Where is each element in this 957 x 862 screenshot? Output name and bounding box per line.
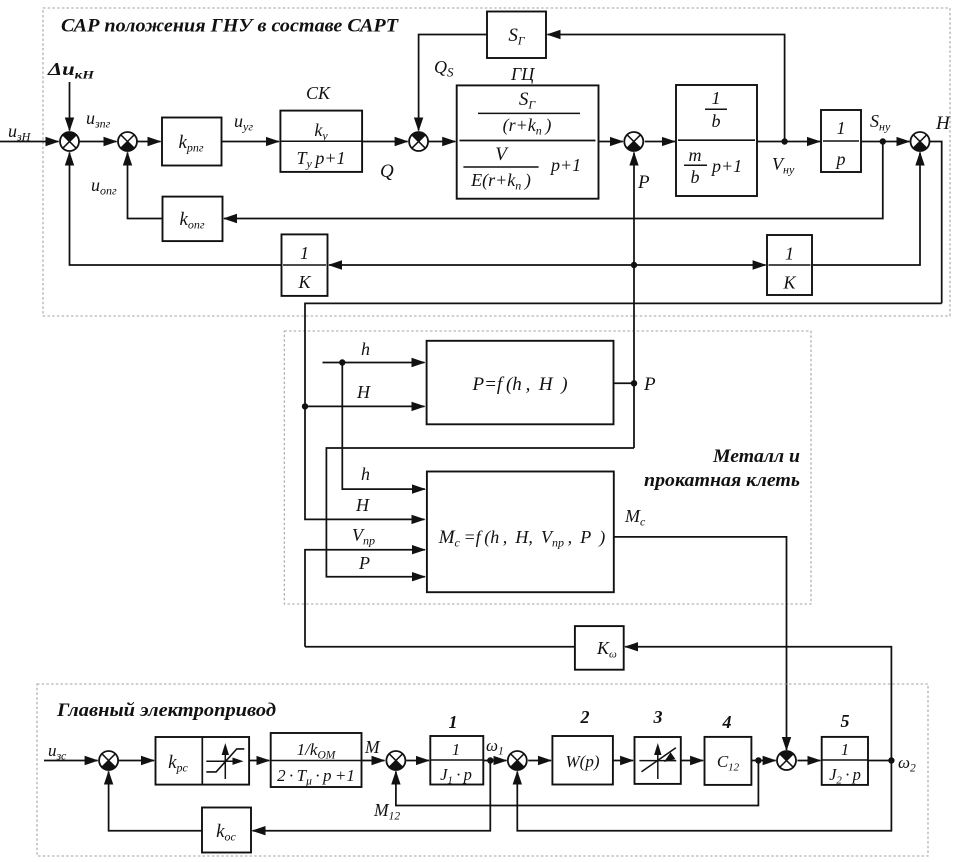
- block P=f(h,H): [427, 341, 614, 425]
- svg-text:K: K: [297, 272, 311, 292]
- summing junction JP: [624, 132, 643, 151]
- svg-text:H: H: [935, 113, 951, 134]
- svg-text:Q: Q: [380, 161, 394, 182]
- wire: P node to 1/K left input: [329, 264, 634, 266]
- wire: omega2 feedback down to BJ3: [517, 761, 891, 831]
- svg-text:2 · Tμ · p +1: 2 · Tμ · p +1: [277, 766, 355, 788]
- svg-text:1: 1: [452, 740, 460, 759]
- svg-text:4: 4: [722, 712, 732, 732]
- node P tap at y265: [631, 262, 637, 268]
- svg-text:P: P: [358, 553, 370, 573]
- wire: 1/kOM to BJ2: [362, 760, 385, 762]
- block 1/kOM over 2Tmu p+1: [271, 733, 362, 787]
- svg-text:b: b: [712, 111, 721, 131]
- node h branch: [339, 359, 345, 365]
- wire: V_nu node up to S_G input: [548, 35, 785, 142]
- svg-text:Металл и: Металл и: [712, 447, 800, 467]
- node after C12: [755, 757, 761, 763]
- wire: u_zs input: [44, 760, 98, 762]
- summing junction BJ3: [508, 751, 527, 770]
- block 1/K left: [282, 234, 328, 296]
- wire: BJ2 to block 1: [406, 760, 429, 762]
- svg-text:1: 1: [300, 243, 309, 263]
- wire: k_opg output to J2: [128, 153, 163, 219]
- svg-text:Главный электропривод: Главный электропривод: [56, 701, 276, 721]
- block 4: C12: [705, 737, 752, 785]
- wire: h branch down into Mc block: [342, 363, 425, 490]
- wire: P feedback from node down into Mc block: [326, 448, 634, 577]
- svg-text:1: 1: [785, 244, 794, 264]
- block 1/b m/b p+1: [676, 85, 757, 196]
- wire: W(p) to block 3: [613, 760, 633, 762]
- wire: P node to 1/K right input: [634, 264, 766, 266]
- wire: V_pr into Mc block: [305, 550, 425, 647]
- wire: M12 feedback from C12 node to BJ2: [396, 761, 759, 806]
- node H branch: [302, 403, 308, 409]
- svg-text:E(r+kп ): E(r+kп ): [470, 170, 531, 193]
- block k_opg: [163, 197, 223, 242]
- wire: omega1 node down to k_os: [253, 761, 491, 831]
- wire: S_G output down to JQ: [419, 35, 487, 131]
- svg-text:прокатная клеть: прокатная клеть: [644, 471, 800, 491]
- svg-text:J1 · p: J1 · p: [440, 765, 472, 787]
- wire: H net from top right down into middle section: [305, 303, 942, 519]
- wire: P vertical main (JP down to corner): [633, 153, 635, 449]
- svg-text:2: 2: [580, 707, 590, 727]
- summing junction JQ: [409, 132, 428, 151]
- summing junction JH: [911, 132, 930, 151]
- wire: block 3 to C12: [681, 760, 703, 762]
- wire: J1 to J2: [79, 141, 117, 143]
- svg-text:J2 · p: J2 · p: [829, 765, 861, 787]
- wire: J2 to k_rpg: [137, 141, 161, 143]
- svg-text:Tу p+1: Tу p+1: [296, 148, 345, 171]
- node omega1: [487, 757, 493, 763]
- wire: P=f output to vertical P net: [614, 382, 635, 384]
- svg-text:P=f (h , H ): P=f (h , H ): [471, 374, 567, 395]
- svg-text:H: H: [355, 495, 370, 515]
- svg-text:h: h: [361, 464, 370, 484]
- svg-text:1: 1: [712, 88, 721, 108]
- block GTs: hydrocylinder transfer function: [457, 85, 599, 198]
- svg-text:P: P: [637, 172, 650, 193]
- wire: C12 to BJ5 with node: [751, 760, 775, 762]
- svg-text:h: h: [361, 339, 370, 359]
- wire: K_omega output left to V_pr corner: [305, 646, 575, 648]
- wire: S_nu node down and left to k_opg: [224, 142, 883, 219]
- wire: 1/K right output to JH bottom: [812, 153, 920, 266]
- svg-text:3: 3: [653, 707, 663, 727]
- wire: BJ3 to W(p): [528, 760, 551, 762]
- wire: u_zN input: [0, 141, 59, 143]
- node omega2: [888, 757, 894, 763]
- dashed frame: Glavny elektroprivod box: [37, 684, 928, 856]
- block 3: variable limiter: [635, 737, 681, 784]
- wire: BJ5 to block 5: [797, 760, 820, 762]
- wire: du_kN vertical into J1: [69, 82, 71, 131]
- wire: k_rpg to SK block: [222, 141, 279, 143]
- wire: block 5 output to omega2 node: [868, 760, 891, 762]
- svg-text:СК: СК: [306, 83, 331, 103]
- block 2: W(p): [552, 736, 613, 785]
- svg-text:W(p): W(p): [566, 752, 600, 771]
- block S_G feedback: [487, 12, 546, 59]
- block 1/p: [821, 110, 861, 172]
- limiter icon: [224, 753, 226, 779]
- node S_nu: [880, 138, 886, 144]
- svg-text:H: H: [356, 382, 371, 402]
- block k_rpg: [162, 118, 222, 166]
- block 5: 1/(J2 p): [822, 737, 868, 785]
- svg-text:Mс =f (h , H, Vпр , P ): Mс =f (h , H, Vпр , P ): [438, 527, 606, 550]
- wire: JH output right and down: [930, 142, 942, 304]
- wire: GTs to JP: [599, 141, 623, 143]
- wire: 1/b to 1/p with V_nu node: [757, 141, 820, 143]
- wire: k_os output to BJ1: [109, 772, 202, 831]
- svg-text:1: 1: [841, 740, 849, 759]
- svg-text:1: 1: [449, 712, 458, 732]
- svg-text:1: 1: [837, 118, 846, 138]
- summing junction BJ5: [777, 751, 796, 770]
- wire: BJ1 to k_rs: [118, 760, 154, 762]
- svg-text:САР положения ГНУ в составе СА: САР положения ГНУ в составе САРТ: [61, 16, 399, 37]
- svg-text:K: K: [782, 273, 796, 293]
- svg-text:b: b: [691, 167, 700, 187]
- block k_os: [202, 808, 251, 853]
- wire: omega2 up and into K_omega: [625, 647, 891, 761]
- svg-text:(r+kп ): (r+kп ): [503, 115, 552, 138]
- wire: SK to JQ: [362, 141, 408, 143]
- svg-text:p: p: [835, 149, 846, 169]
- summing junction J2: [118, 132, 137, 151]
- wire: 1/p to JH with S_nu node: [861, 141, 909, 143]
- block 1: 1/(J1 p): [430, 736, 483, 785]
- wire: Mc output right and down to BJ5: [614, 537, 787, 750]
- block k_rs with limiter: [156, 737, 250, 785]
- arrow into JP from below: [633, 153, 635, 200]
- wire: JQ to GTs block: [428, 141, 455, 143]
- svg-text:ГЦ: ГЦ: [510, 64, 535, 84]
- svg-text:m: m: [689, 145, 702, 165]
- summing junction J1: [60, 132, 79, 151]
- wire: h into P=f block: [323, 362, 425, 364]
- svg-text:5: 5: [841, 711, 850, 731]
- wire: 1/K left output to J1 bottom: [70, 153, 282, 266]
- summing junction BJ1: [99, 751, 118, 770]
- wire: k_rs to 1/kOM block: [249, 760, 269, 762]
- node V_nu: [781, 138, 787, 144]
- block SK: k_u/(T_u p+1): [280, 111, 362, 172]
- svg-text:p+1: p+1: [710, 156, 742, 176]
- dashed frame: SAR polozheniya GNU box: [43, 8, 950, 316]
- wire: block 1 to BJ3 with omega1 node: [483, 760, 506, 762]
- svg-text:M: M: [364, 737, 381, 757]
- wire: H branch into P=f block: [305, 405, 425, 407]
- svg-text:P: P: [643, 374, 656, 395]
- dashed frame: Metall i prokatnaya klet box: [284, 331, 811, 604]
- wire: JP to 1/b block: [645, 141, 675, 143]
- svg-text:p+1: p+1: [549, 155, 581, 175]
- node P output: [631, 380, 637, 386]
- block K_omega: [575, 626, 624, 670]
- summing junction BJ2: [386, 751, 405, 770]
- block 1/K right: [767, 235, 812, 295]
- block Mc=f(h,H,Vpr,P): [427, 472, 614, 593]
